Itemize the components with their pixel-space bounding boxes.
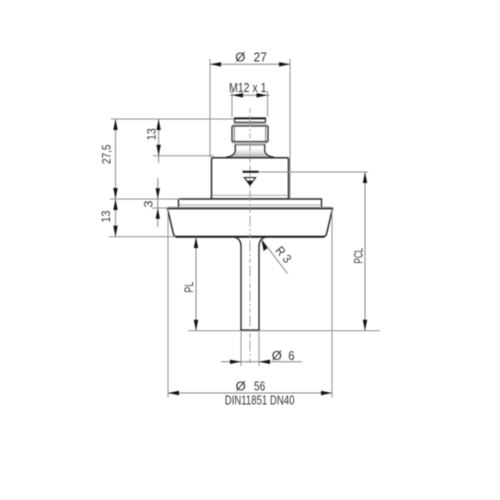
svg-text:M12 x 1: M12 x 1 [229, 81, 267, 95]
dimension PCL line [364, 172, 366, 331]
svg-text:Ø: Ø [272, 348, 282, 363]
svg-text:3: 3 [142, 201, 156, 208]
svg-text:Ø: Ø [236, 378, 246, 393]
M12 nut lower chamfer [232, 142, 268, 146]
dimension dia 27 line [210, 63, 290, 65]
svg-text:DIN11851 DN40: DIN11851 DN40 [225, 393, 295, 408]
svg-text:13: 13 [99, 210, 113, 222]
level mark triangle [244, 178, 255, 186]
level reference line to PCL [259, 171, 369, 173]
dimension PL line [195, 237, 197, 331]
svg-text:56: 56 [254, 378, 265, 393]
wire: dia27 extension left [209, 59, 211, 158]
svg-text:PL: PL [182, 282, 196, 293]
svg-text:6: 6 [288, 348, 294, 363]
wire: dia27 extension right [289, 59, 291, 199]
dimension 3 line [157, 178, 159, 227]
mounting plate [179, 199, 322, 207]
M12 plug cap [235, 118, 266, 123]
svg-text:PCL: PCL [351, 248, 365, 264]
M12 nut body [232, 126, 268, 142]
housing body dia27 [212, 158, 289, 199]
dimension dia56 line [168, 392, 332, 394]
wire: dia56 extension left (flange corner down) [167, 209, 169, 398]
wire: extension line plate top left y=199 [110, 198, 180, 200]
svg-text:27,5: 27,5 [99, 144, 113, 164]
wire: extension line flange bottom left y=236.8 [109, 236, 176, 238]
dimension M12x1 line [230, 94, 270, 96]
dimension R3 leader [262, 240, 288, 274]
dimension dia6 line [221, 361, 302, 363]
plug neck with flare [226, 145, 274, 157]
dimension 13 bottom line [115, 199, 117, 237]
wire: M12 extension right [267, 91, 269, 117]
rod fillet right R3 [259, 237, 268, 246]
wire: dia6 extension right [258, 332, 260, 366]
wire: dia6 extension left [240, 332, 242, 366]
dimension 27,5 line [115, 119, 117, 199]
svg-text:13: 13 [145, 128, 159, 140]
wire: extension line plug top y=119 [111, 118, 234, 120]
wire: M12 extension left [231, 91, 233, 117]
wire: rod tip level line y=330.7 [188, 330, 380, 332]
wire: extension line flange top left y=208 [152, 207, 168, 209]
level mark bar [243, 171, 259, 173]
M12 nut upper chamfer [232, 124, 268, 126]
centerline [249, 109, 251, 365]
rod fillet left R3 [232, 237, 241, 246]
flange DIN11851 [168, 207, 333, 236]
probe rod [240, 245, 259, 330]
wire: extension line neck base y=155.8 [153, 155, 214, 157]
dimension 13 top line [158, 119, 160, 163]
svg-text:Ø: Ø [235, 50, 245, 65]
wire: dia56 extension right (flange corner down) [331, 209, 333, 398]
svg-text:27: 27 [254, 50, 267, 65]
